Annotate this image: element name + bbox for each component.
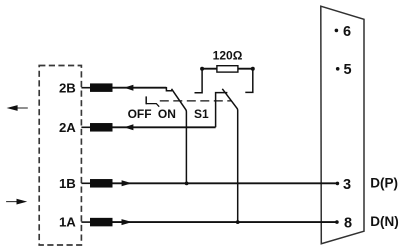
terminal stub 2A [81,126,90,128]
wire 2B [113,87,167,89]
pin 6 [335,24,351,40]
bus-out direction arrow (left, pointing left) [7,105,28,111]
S1 mechanical linkage (dashed) [160,100,232,102]
node B (R1 right corner dot) [251,67,255,71]
junction dot (pole1 common on 1B wire) [185,182,189,186]
connector shell (D-SUB housing) [321,6,364,244]
svg-text:S1: S1 [194,107,209,121]
pin 3 [336,177,351,193]
svg-text:6: 6 [343,24,351,40]
pin 8 [335,216,352,232]
svg-text:OFF: OFF [128,107,152,121]
svg-text:2B: 2B [59,80,76,95]
resistor R1 (120 ohm termination) [217,66,238,72]
svg-text:5: 5 [344,62,352,78]
terminal stub 2B [81,87,90,89]
wire 1A (to pin 8) [113,221,337,223]
arrowhead on wire 1A (pointing right) [122,219,133,225]
svg-text:3: 3 [343,177,351,193]
series bead 2B [90,83,113,92]
svg-text:ON: ON [158,107,176,121]
S1 pole1 blade [172,89,187,184]
svg-text:2A: 2A [59,120,76,135]
svg-text:1A: 1A [59,215,76,230]
series bead 1B [90,179,113,188]
dashed device boundary box [39,66,81,246]
svg-text:120Ω: 120Ω [213,49,243,63]
junction dot (pole2 common on 1A wire) [236,220,240,224]
arrowhead on wire 2A (pointing left) [124,124,133,130]
S1 pole1 ON contact (from node A down) [195,69,203,93]
S1 lever position indicator icon [146,96,159,106]
svg-text:1B: 1B [59,176,76,191]
terminal stub 1B [81,182,90,184]
series bead 2A [90,123,113,132]
series bead 1A [90,218,113,227]
terminal stub 1A [81,221,90,223]
wire (R1 right to node B) [238,68,253,70]
node A (R1 left corner dot) [200,67,204,71]
pin 5 [336,62,352,78]
bus-in direction arrow (left, pointing right) [6,199,27,205]
wire 1B (to pin 3) [113,182,338,184]
arrowhead on wire 1B (pointing right) [122,180,132,186]
wire (node A to R1 left) [202,68,217,70]
S1 pole2 OFF contact (riser from 2A wire) [216,93,228,128]
S1 pole1 OFF contact (2B wire end step) [166,87,172,91]
svg-text:D(P): D(P) [370,175,398,190]
svg-text:8: 8 [344,216,352,232]
S1 pole2 ON contact (from node B down) [245,69,253,93]
S1 pole2 blade [222,89,237,222]
svg-text:D(N): D(N) [370,214,399,229]
arrowhead on wire 2B (pointing left) [124,85,133,91]
wire 2A [113,126,216,128]
